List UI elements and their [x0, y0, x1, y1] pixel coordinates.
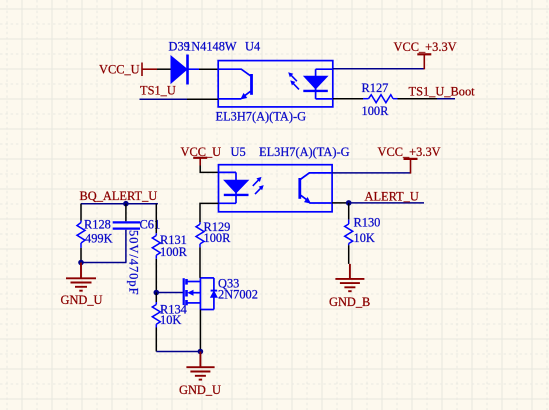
- svg-text:100R: 100R: [204, 231, 232, 245]
- wire U5 emitter to ALERT_U: [332, 202, 349, 204]
- svg-text:VCC_U: VCC_U: [181, 145, 222, 159]
- wire VCC_U to D39 anode: [157, 68, 172, 70]
- svg-text:R127: R127: [362, 81, 389, 95]
- svg-text:R128: R128: [84, 218, 111, 232]
- svg-text:499K: 499K: [85, 232, 113, 246]
- U4 light arrows: [288, 72, 299, 89]
- svg-text:BQ_ALERT_U: BQ_ALERT_U: [80, 189, 158, 203]
- svg-text:VCC_+3.3V: VCC_+3.3V: [394, 40, 457, 54]
- diode D39: [171, 55, 199, 85]
- power port VCC_+3.3V (top): [417, 53, 431, 55]
- wire R128 to ground: [80, 248, 82, 263]
- resistor R134: [155, 293, 157, 303]
- svg-text:TS1_U: TS1_U: [140, 83, 176, 97]
- ground GND_U (left): [66, 263, 96, 291]
- svg-text:2N7002: 2N7002: [218, 288, 258, 302]
- U5 LED: [219, 172, 249, 203]
- svg-text:ALERT_U: ALERT_U: [365, 189, 419, 203]
- svg-text:VCC_U: VCC_U: [99, 62, 140, 76]
- svg-text:EL3H7(A)(TA)-G: EL3H7(A)(TA)-G: [216, 110, 307, 124]
- power port VCC_U (U5): [193, 157, 207, 159]
- wire bottom rail: [156, 351, 200, 353]
- junction node R128/C61 bottom: [78, 260, 84, 266]
- resistor R130: [348, 203, 350, 220]
- wire TS1_U to U4 emitter pin: [140, 98, 188, 100]
- U5 phototransistor (mirrored): [300, 173, 332, 204]
- optocoupler U4 box: [218, 61, 333, 107]
- wire R131 to gate node: [155, 259, 157, 293]
- svg-text:10K: 10K: [160, 313, 181, 327]
- svg-text:EL3H7(A)(TA)-G: EL3H7(A)(TA)-G: [259, 145, 350, 159]
- capacitor C61: [125, 204, 127, 222]
- U4 phototransistor: [218, 69, 251, 99]
- wire VCC_U port to U5 anode: [200, 166, 218, 173]
- wire U5 collector to +3.3V: [332, 172, 410, 174]
- wire Q33 source down: [199, 310, 201, 352]
- U4 LED: [303, 69, 333, 99]
- svg-text:50V/470pF: 50V/470pF: [127, 230, 141, 295]
- svg-text:GND_U: GND_U: [179, 383, 221, 397]
- svg-text:100R: 100R: [160, 245, 188, 259]
- U5 light arrows: [253, 177, 264, 194]
- svg-text:GND_U: GND_U: [61, 293, 103, 307]
- wire U4 collector to +3.3V: [333, 68, 425, 70]
- wire R134 to bottom rail: [155, 328, 157, 352]
- junction node C61 top: [123, 201, 129, 207]
- junction node source/rail: [198, 349, 204, 355]
- power port VCC_+3.3V (U5): [404, 158, 418, 160]
- svg-text:R130: R130: [354, 216, 381, 230]
- junction node gate: [154, 290, 160, 296]
- ground GND_U (bottom): [186, 352, 214, 380]
- ground GND_B: [335, 264, 364, 291]
- svg-text:TS1_U_Boot: TS1_U_Boot: [409, 84, 476, 98]
- svg-text:10K: 10K: [354, 231, 375, 245]
- wire BQ_ALERT_U rail: [81, 203, 158, 205]
- resistor R131: [155, 204, 157, 234]
- svg-text:C61: C61: [140, 218, 161, 232]
- junction node ALERT_U: [346, 200, 352, 206]
- wire U4 emitter to R127: [333, 98, 363, 100]
- wire C61 bottom rail: [81, 262, 127, 264]
- wire R129 to Q33 drain: [199, 247, 201, 278]
- svg-text:U5: U5: [231, 145, 246, 159]
- wire R127 to TS1_U_Boot: [398, 98, 438, 100]
- transistor Q33: [184, 278, 218, 310]
- svg-text:VCC_+3.3V: VCC_+3.3V: [378, 145, 441, 159]
- svg-text:100R: 100R: [362, 104, 390, 118]
- wire R130 to GND_B: [348, 245, 350, 264]
- svg-text:U4: U4: [245, 40, 260, 54]
- resistor R128: [80, 204, 82, 221]
- svg-text:1N4148W: 1N4148W: [185, 40, 237, 54]
- wire gate: [156, 292, 183, 294]
- svg-text:GND_B: GND_B: [329, 295, 370, 309]
- optocoupler U5 box: [219, 165, 333, 212]
- resistor R129: [200, 203, 219, 222]
- power port VCC_U (top-left): [142, 63, 157, 77]
- wire D39 cathode to U4 pin: [199, 68, 218, 70]
- resistor R127: [363, 95, 398, 103]
